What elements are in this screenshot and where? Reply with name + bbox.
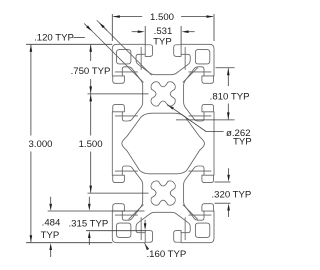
center hole X bottom cell: [151, 181, 175, 205]
dim 1.500 left: line, arrows: [90, 94, 92, 135]
web face lines (extension of .120 wall) top-left: [97, 21, 152, 76]
svg-text:TYP: TYP: [41, 230, 60, 241]
dim 1.500 top: extension lines: [111, 14, 113, 41]
svg-text:TYP: TYP: [233, 136, 252, 147]
corner boss chamfer bottom-right: [183, 205, 197, 219]
T-slot left lower: [113, 166, 143, 220]
dim 3.000: extension of bottom face: [26, 242, 112, 244]
T-slot top: [136, 45, 190, 75]
dim .315 TYP: arrows: [88, 204, 91, 211]
svg-text:.320 TYP: .320 TYP: [211, 190, 251, 201]
svg-text:3.000: 3.000: [28, 139, 52, 150]
svg-text:.315 TYP: .315 TYP: [68, 218, 108, 229]
center hole X top cell: [151, 82, 175, 106]
dim .160 TYP: leader arrow: [145, 243, 149, 250]
corner boss chamfer top-right: [183, 68, 197, 82]
corner square hole top-right: [195, 50, 209, 64]
svg-text:.750 TYP: .750 TYP: [71, 66, 111, 77]
corner square hole bottom-right: [195, 223, 209, 237]
dim .320 TYP: arrows outside: [227, 175, 230, 182]
dim .160 TYP: upper arrow pointing down at lip pocket bottom: [144, 223, 147, 230]
dim .750 TYP: top face extension line: [26, 43, 112, 45]
svg-text:.160 TYP: .160 TYP: [147, 249, 187, 260]
T-slot bottom: [136, 212, 190, 242]
dim dia .262: leader with arrow to X hole: [167, 105, 173, 110]
outer profile outline: [112, 44, 214, 242]
dim .810 TYP: extension lines: [216, 67, 235, 69]
dim .531 TYP: extension lines: [144, 26, 146, 44]
dim .484 TYP: extension line upper: [48, 210, 145, 212]
central octagon cavity: [122, 113, 204, 174]
dim 3.000: line, arrows: [30, 45, 32, 136]
T-slot right lower: [184, 166, 214, 220]
T-slot left upper: [113, 67, 143, 121]
svg-text:TYP: TYP: [153, 36, 172, 47]
dim 1.500 top: dimension line and arrows: [113, 16, 142, 18]
svg-text:.120 TYP: .120 TYP: [34, 32, 74, 43]
dim .750 TYP: dimension line, arrows: [90, 45, 92, 61]
dim .315 TYP: extension line lower: [86, 230, 146, 232]
slot center extension line upper: [88, 93, 149, 95]
dim .320 TYP: extension lines: [215, 181, 231, 183]
corner square hole top-left: [117, 50, 131, 64]
slot center extension line lower: [88, 192, 149, 194]
corner square hole bottom-left: [117, 223, 131, 237]
dim .531 TYP: arrows outside: [138, 30, 145, 33]
dim .120 TYP: second arrow: [99, 22, 105, 28]
svg-text:.810 TYP: .810 TYP: [210, 92, 250, 103]
corner boss chamfer bottom-left: [129, 205, 143, 219]
svg-text:1.500: 1.500: [150, 12, 174, 23]
dim .484 TYP: arrows: [49, 204, 52, 211]
T-slot right upper: [184, 67, 214, 121]
dim .810 TYP: line, arrows: [227, 68, 229, 86]
svg-text:1.500: 1.500: [79, 139, 103, 150]
svg-text:.484: .484: [42, 218, 61, 229]
